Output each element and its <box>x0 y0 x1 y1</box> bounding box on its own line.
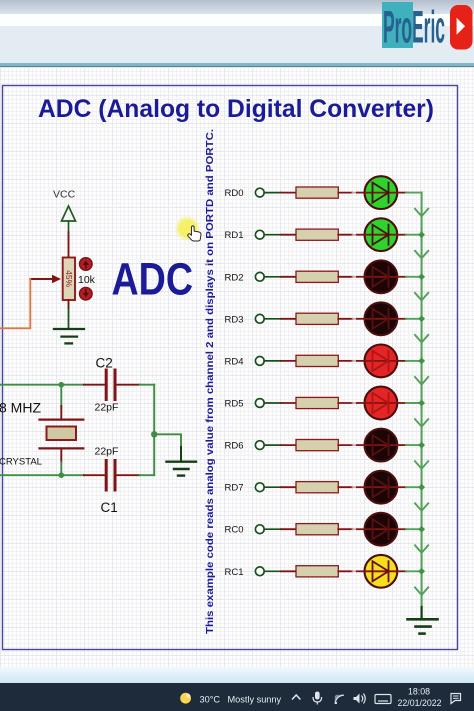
svg-text:RD4: RD4 <box>224 356 243 367</box>
resistor R7 (RD6) <box>296 440 338 451</box>
bus current arrow 8 <box>415 503 428 511</box>
terminal RC0 <box>255 525 264 534</box>
ground symbol (potentiometer) <box>54 329 84 343</box>
svg-text:45%: 45% <box>64 270 74 287</box>
wire RD5 to resistor <box>264 402 296 404</box>
wire resistor R2 to LED D2 <box>338 234 364 236</box>
svg-text:ADC: ADC <box>112 253 194 304</box>
wire resistor R1 to LED D1 <box>338 192 364 194</box>
wire OSC1 net (top) <box>0 384 154 386</box>
svg-text:C2: C2 <box>96 356 113 371</box>
svg-text:10k: 10k <box>78 274 96 286</box>
wire LED D2 to bus <box>398 234 422 236</box>
tray speaker icon <box>354 694 366 704</box>
wire to crystal ground <box>154 434 181 461</box>
svg-text:Mostly sunny: Mostly sunny <box>228 695 282 705</box>
bus current arrow 4 <box>415 335 428 343</box>
action center icon <box>451 694 461 704</box>
svg-text:RC0: RC0 <box>224 525 243 536</box>
svg-text:22pF: 22pF <box>95 446 119 458</box>
wire RD2 to resistor <box>264 276 296 278</box>
wire analog input (highlighted) <box>0 279 30 328</box>
svg-text:RD0: RD0 <box>224 188 243 199</box>
big ADC label <box>112 253 194 304</box>
svg-text:CRYSTAL: CRYSTAL <box>0 457 42 468</box>
bus current arrow 3 <box>415 293 428 301</box>
wire RD0 to resistor <box>264 192 296 194</box>
label C2 <box>96 356 113 371</box>
led D10 (RC1) <box>365 555 398 588</box>
led D1 (RD0) <box>365 176 398 209</box>
svg-text:RD5: RD5 <box>224 399 243 410</box>
teal separator line <box>0 63 474 66</box>
ProEric logo text and youtube icon <box>0 0 474 56</box>
value label 10k <box>78 274 96 286</box>
title text <box>38 95 434 123</box>
youtube play button <box>450 5 473 50</box>
light blue band above taskbar <box>0 667 474 683</box>
resistor R10 (RC1) <box>296 566 338 577</box>
junction on bus at RC0 <box>418 526 425 533</box>
node RD5 terminal label <box>224 399 243 410</box>
svg-text:22/01/2022: 22/01/2022 <box>397 698 441 708</box>
white strip <box>0 14 474 26</box>
potentiometer increment button <box>80 258 93 271</box>
junction on bus at RD5 <box>418 400 425 407</box>
tray keyboard icon <box>375 695 391 704</box>
label 8 MHZ <box>0 400 41 416</box>
terminal RD3 <box>255 314 264 323</box>
terminal RC1 <box>255 567 264 576</box>
resistor R8 (RD7) <box>296 482 338 493</box>
terminal RD6 <box>255 441 264 450</box>
wire potentiometer to ground <box>68 300 70 328</box>
tray chevron <box>292 695 300 700</box>
junction capacitor ground branch <box>151 431 157 437</box>
wire capacitors right vertical <box>153 385 155 476</box>
bus current arrow 10 <box>415 587 428 595</box>
potentiometer decrement button <box>80 287 93 300</box>
junction on bus at RD1 <box>418 231 425 238</box>
weather sun icon <box>180 693 191 704</box>
led D6 (RD5) <box>365 387 398 420</box>
resistor R9 (RC0) <box>296 524 338 535</box>
wire RD3 to resistor <box>264 318 296 320</box>
value label 22pF (C2) <box>95 402 119 414</box>
svg-text:RC1: RC1 <box>224 567 243 578</box>
window title bar gradient <box>0 0 474 14</box>
toolbar panel <box>0 26 474 63</box>
wire resistor R5 to LED D5 <box>338 360 364 362</box>
ground symbol (crystal) <box>167 462 197 476</box>
led D3 (RD2) <box>365 260 398 293</box>
led D8 (RD7) <box>365 471 398 504</box>
label CRYSTAL <box>0 457 42 468</box>
wire RC1 to resistor <box>264 570 296 572</box>
terminal RD1 <box>255 230 264 239</box>
wire LED D5 to bus <box>398 360 422 362</box>
led D9 (RC0) <box>365 513 398 546</box>
label C1 <box>101 500 118 515</box>
svg-text:RD1: RD1 <box>224 230 243 241</box>
svg-text:RD2: RD2 <box>224 272 243 283</box>
junction on bus at RD6 <box>418 442 425 449</box>
resistor R2 (RD1) <box>296 229 338 240</box>
ground symbol (bus) <box>408 619 438 633</box>
wire resistor R8 to LED D8 <box>338 486 364 488</box>
resistor R4 (RD3) <box>296 313 338 324</box>
wire resistor R10 to LED D10 <box>338 570 364 572</box>
wire OSC2 net (bottom) <box>0 474 154 476</box>
wire LED D8 to bus <box>398 486 422 488</box>
terminal RD7 <box>255 483 264 492</box>
node RD4 terminal label <box>224 356 243 367</box>
junction on bus at RD2 <box>418 273 425 280</box>
hand cursor <box>188 226 201 241</box>
wire resistor R9 to LED D9 <box>338 528 364 530</box>
led D5 (RD4) <box>365 345 398 378</box>
svg-text:22pF: 22pF <box>95 402 119 414</box>
bus current arrow 6 <box>415 419 428 427</box>
weather text <box>200 695 282 705</box>
wire LED D10 to bus <box>398 570 422 572</box>
power symbol VCC arrow <box>62 206 76 233</box>
resistor R1 (RD0) <box>296 187 338 198</box>
wire LED D4 to bus <box>398 318 422 320</box>
vertical note text <box>204 129 216 634</box>
wire RC0 to resistor <box>264 528 296 530</box>
terminal RD4 <box>255 357 264 366</box>
node RC0 terminal label <box>224 525 243 536</box>
wire RD4 to resistor <box>264 360 296 362</box>
wire RD1 to resistor <box>264 234 296 236</box>
resistor R5 (RD4) <box>296 355 338 366</box>
bus current arrow 1 <box>415 209 428 217</box>
svg-text:30°C: 30°C <box>200 695 221 705</box>
wire RD6 to resistor <box>264 444 296 446</box>
svg-text:ProEric: ProEric <box>383 2 445 53</box>
crystal X1 <box>40 420 84 449</box>
svg-text:RD6: RD6 <box>224 441 243 452</box>
led D4 (RD3) <box>365 302 398 335</box>
node RD1 terminal label <box>224 230 243 241</box>
svg-text:ADC (Analog to Digital Convert: ADC (Analog to Digital Converter) <box>38 95 434 123</box>
power VCC label <box>53 189 76 201</box>
terminal RD5 <box>255 399 264 408</box>
bus current arrow 7 <box>415 461 428 469</box>
wire resistor R6 to LED D6 <box>338 402 364 404</box>
wire crystal top pin <box>60 385 62 420</box>
clock time <box>397 687 441 709</box>
led D2 (RD1) <box>365 218 398 251</box>
svg-text:RD3: RD3 <box>224 314 243 325</box>
wire LED D9 to bus <box>398 528 422 530</box>
capacitor C2 plates <box>106 370 115 400</box>
node RD6 terminal label <box>224 441 243 452</box>
wire LED D3 to bus <box>398 276 422 278</box>
potentiometer RV1 body <box>63 258 75 301</box>
svg-text:18:08: 18:08 <box>408 687 430 697</box>
wire bus to ground <box>421 607 423 619</box>
tray network icon <box>335 695 344 704</box>
bus current arrow 2 <box>415 251 428 258</box>
junction on bus at RD4 <box>418 358 425 365</box>
terminal RD2 <box>255 272 264 281</box>
bus current arrow 9 <box>415 545 428 553</box>
svg-text:RD7: RD7 <box>224 483 243 494</box>
value label 22pF (C1) <box>95 446 119 458</box>
ProEric logo teal block <box>382 2 413 48</box>
wire resistor R3 to LED D3 <box>338 276 364 278</box>
bus current arrow 5 <box>415 377 428 385</box>
led D7 (RD6) <box>365 429 398 462</box>
junction on bus at RD3 <box>418 315 425 322</box>
svg-text:C1: C1 <box>101 500 118 515</box>
junction on bus at RC1 <box>418 568 425 575</box>
sheet border <box>3 86 458 650</box>
capacitor C1 plates <box>106 461 115 491</box>
wire resistor R7 to LED D7 <box>338 444 364 446</box>
taskbar <box>0 683 474 711</box>
wire RD7 to resistor <box>264 486 296 488</box>
svg-text:8 MHZ: 8 MHZ <box>0 400 41 416</box>
tray microphone icon <box>313 692 322 705</box>
wire crystal bottom pin <box>60 448 62 475</box>
potentiometer wiper arrow <box>30 275 61 283</box>
wire VCC to potentiometer <box>68 233 70 258</box>
junction OSC1/crystal <box>59 382 65 388</box>
wire LED D7 to bus <box>398 444 422 446</box>
node RD0 terminal label <box>224 188 243 199</box>
bus wire vertical <box>421 193 423 607</box>
node RD3 terminal label <box>224 314 243 325</box>
node RD7 terminal label <box>224 483 243 494</box>
svg-text:VCC: VCC <box>53 189 76 201</box>
junction on bus at RD7 <box>418 484 425 491</box>
node RD2 terminal label <box>224 272 243 283</box>
node RC1 terminal label <box>224 567 243 578</box>
resistor R6 (RD5) <box>296 397 338 408</box>
wire resistor R4 to LED D4 <box>338 318 364 320</box>
terminal RD0 <box>255 188 264 197</box>
wire LED D1 to bus <box>398 192 422 194</box>
resistor R3 (RD2) <box>296 271 338 282</box>
junction OSC2/crystal <box>59 472 65 478</box>
wire LED D6 to bus <box>398 402 422 404</box>
svg-text:This example code reads analog: This example code reads analog value fro… <box>204 129 216 634</box>
